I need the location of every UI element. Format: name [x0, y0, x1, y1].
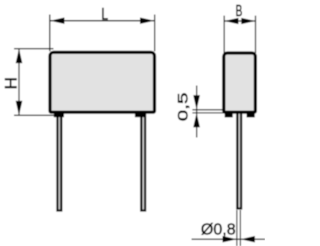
svg-text:H: H [1, 77, 20, 89]
svg-text:Ø0,8: Ø0,8 [201, 221, 236, 238]
svg-text:0,5: 0,5 [175, 92, 191, 121]
svg-text:B: B [236, 2, 243, 20]
svg-text:L: L [101, 6, 108, 24]
